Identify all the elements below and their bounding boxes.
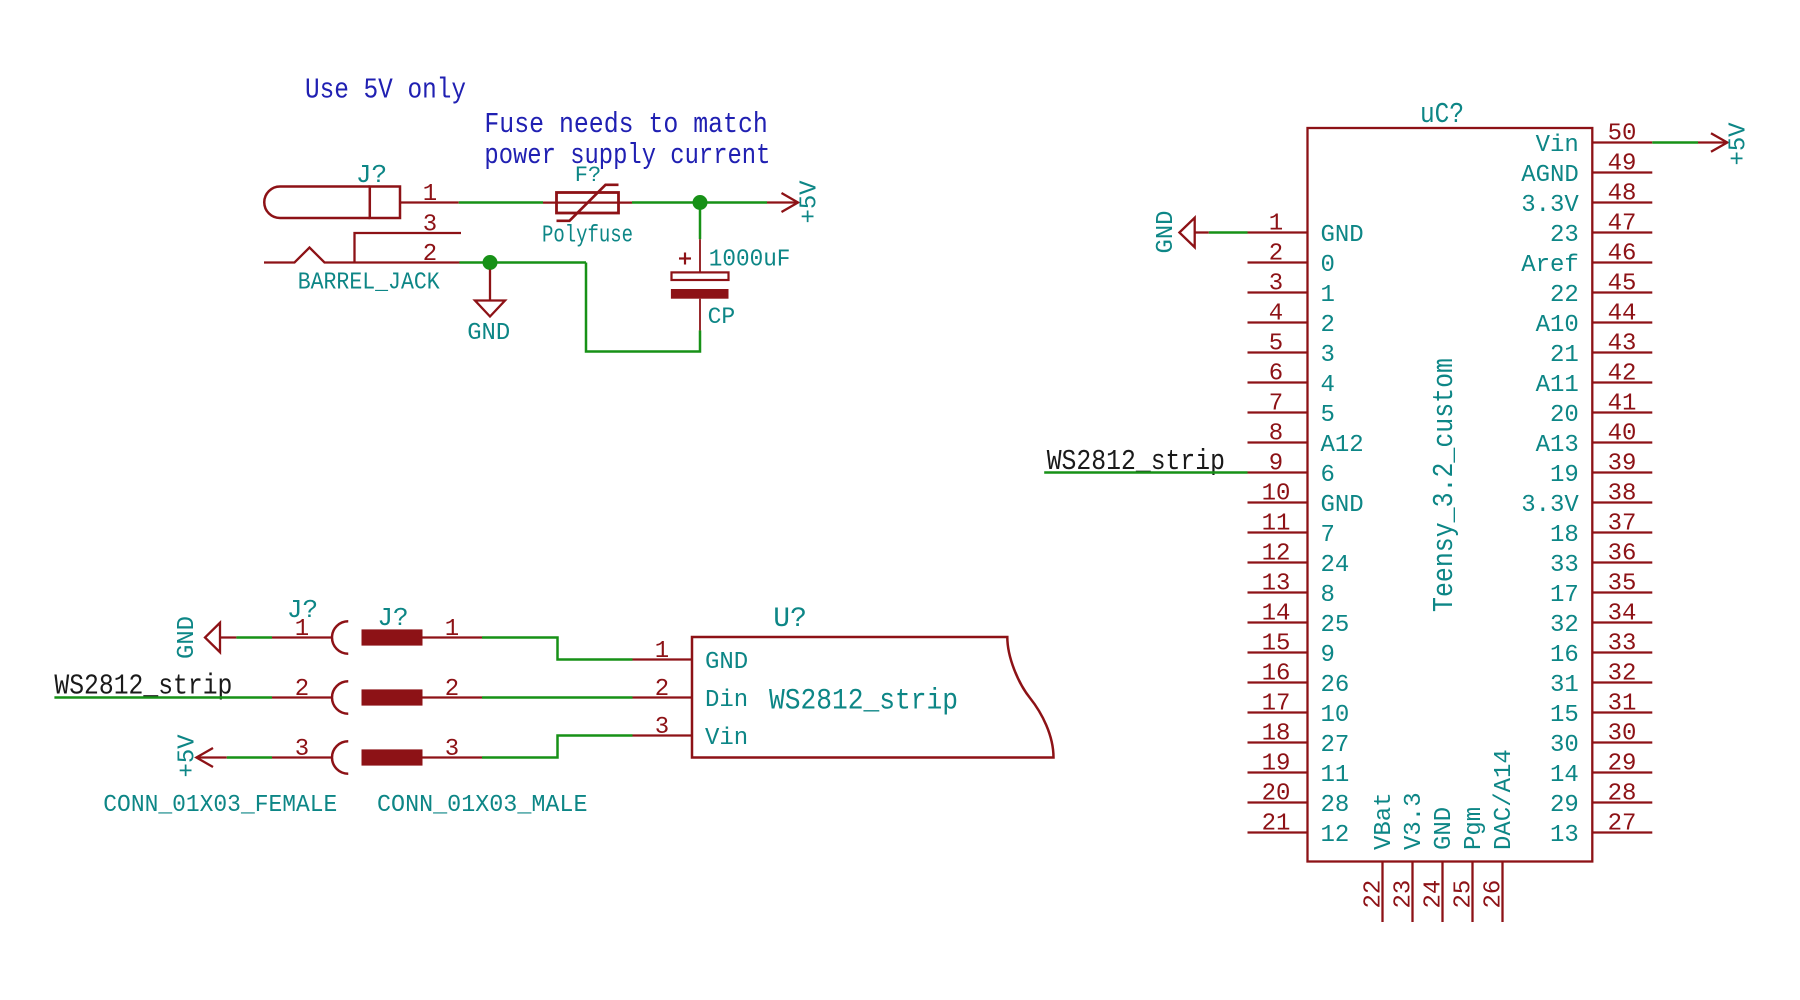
uC pin 15 (9) — [1248, 631, 1335, 670]
uC pin 42 (A11) — [1536, 361, 1653, 400]
svg-text:power supply current: power supply current — [484, 139, 770, 172]
svg-text:22: 22 — [1550, 282, 1579, 309]
wire: down from GND junction — [489, 263, 492, 270]
power symbol +5V (top) — [767, 180, 824, 224]
svg-text:30: 30 — [1550, 732, 1579, 759]
IC U? WS2812_strip — [692, 637, 1054, 758]
svg-text:3: 3 — [655, 714, 669, 741]
uC pin 23 (V3.3) — [1391, 792, 1428, 922]
svg-text:2: 2 — [1269, 241, 1283, 268]
svg-text:A12: A12 — [1321, 432, 1364, 459]
svg-text:13: 13 — [1550, 822, 1579, 849]
uC pin 1 (GND) — [1248, 211, 1364, 250]
svg-text:27: 27 — [1608, 811, 1637, 838]
uC pin 38 (3.3V) — [1521, 481, 1652, 520]
svg-text:9: 9 — [1269, 451, 1283, 478]
svg-text:32: 32 — [1608, 661, 1637, 688]
svg-text:3: 3 — [1321, 342, 1335, 369]
svg-text:17: 17 — [1550, 582, 1579, 609]
svg-text:12: 12 — [1262, 541, 1291, 568]
uC pin 47 (23) — [1550, 211, 1652, 250]
wire: male pin3 to U? pin3 — [482, 736, 633, 758]
svg-text:34: 34 — [1608, 601, 1637, 628]
fuse F? polyfuse — [543, 185, 632, 221]
uC pin 32 (31) — [1550, 661, 1652, 700]
wire: jack pin2 to GND junction — [459, 261, 586, 264]
barrel jack pin 1 — [400, 181, 459, 208]
female pin 2 — [272, 676, 348, 714]
svg-text:Vin: Vin — [1536, 132, 1579, 159]
svg-text:48: 48 — [1608, 181, 1637, 208]
ground symbol GND (female pin 1) — [174, 616, 236, 659]
uC pin 37 (18) — [1550, 511, 1652, 550]
svg-text:GND: GND — [705, 649, 748, 676]
svg-text:18: 18 — [1550, 522, 1579, 549]
male pin 3 — [362, 736, 483, 766]
svg-text:12: 12 — [1321, 822, 1350, 849]
svg-text:30: 30 — [1608, 721, 1637, 748]
svg-text:CP: CP — [708, 304, 736, 330]
wire: male pin2 to U? pin2 — [482, 696, 633, 699]
svg-text:7: 7 — [1321, 522, 1335, 549]
uC pin 30 (30) — [1550, 721, 1652, 760]
svg-text:41: 41 — [1608, 391, 1637, 418]
wire: GND to uC pin 1 — [1209, 231, 1248, 234]
uC pin 40 (A13) — [1536, 421, 1653, 460]
svg-text:3: 3 — [295, 736, 309, 763]
svg-text:+5V: +5V — [175, 734, 202, 778]
svg-text:16: 16 — [1550, 642, 1579, 669]
uC pin 20 (28) — [1248, 781, 1350, 820]
uC pin 36 (33) — [1550, 541, 1652, 580]
U? pin 2 Din — [633, 676, 749, 714]
svg-text:uC?: uC? — [1420, 98, 1464, 131]
wire: WS2812_strip net to uC pin 9 — [1044, 471, 1247, 474]
svg-text:19: 19 — [1550, 462, 1579, 489]
barrel jack pin 3 — [355, 212, 462, 263]
svg-text:22: 22 — [1361, 880, 1388, 909]
svg-text:33: 33 — [1608, 631, 1637, 658]
wire: +5V to female pin 3 — [227, 756, 272, 759]
svg-text:3.3V: 3.3V — [1521, 192, 1579, 219]
uC pin 10 (GND) — [1248, 481, 1364, 520]
svg-text:26: 26 — [1481, 880, 1508, 909]
svg-text:3: 3 — [1269, 271, 1283, 298]
uC pin 27 (13) — [1550, 811, 1652, 850]
svg-text:31: 31 — [1550, 672, 1579, 699]
svg-text:Vin: Vin — [705, 725, 748, 752]
uC pin 4 (2) — [1248, 301, 1335, 340]
uC pin 18 (27) — [1248, 721, 1350, 760]
svg-text:17: 17 — [1262, 691, 1291, 718]
svg-text:15: 15 — [1262, 631, 1291, 658]
svg-text:5: 5 — [1321, 402, 1335, 429]
svg-text:1: 1 — [1269, 211, 1283, 238]
uC pin 17 (10) — [1248, 691, 1350, 730]
uC pin 41 (20) — [1550, 391, 1652, 430]
svg-text:3.3V: 3.3V — [1521, 492, 1579, 519]
male pin 2 — [362, 676, 483, 706]
uC pin 13 (8) — [1248, 571, 1335, 610]
svg-text:49: 49 — [1608, 151, 1637, 178]
svg-text:WS2812_strip: WS2812_strip — [769, 685, 958, 719]
svg-text:GND: GND — [1321, 492, 1364, 519]
svg-text:CONN_01X03_FEMALE: CONN_01X03_FEMALE — [103, 792, 337, 819]
uC pin 46 (Aref) — [1521, 241, 1652, 280]
svg-text:28: 28 — [1608, 781, 1637, 808]
uC pin 31 (15) — [1550, 691, 1652, 730]
svg-text:GND: GND — [1431, 807, 1458, 850]
svg-text:39: 39 — [1608, 451, 1637, 478]
svg-text:31: 31 — [1608, 691, 1637, 718]
svg-text:BARREL_JACK: BARREL_JACK — [298, 270, 441, 297]
svg-text:3: 3 — [445, 736, 459, 763]
svg-text:A13: A13 — [1536, 432, 1579, 459]
svg-text:37: 37 — [1608, 511, 1637, 538]
svg-text:20: 20 — [1262, 781, 1291, 808]
svg-text:GND: GND — [467, 320, 510, 347]
svg-text:4: 4 — [1269, 301, 1283, 328]
svg-text:25: 25 — [1321, 612, 1350, 639]
svg-text:42: 42 — [1608, 361, 1637, 388]
female pin 3 — [272, 736, 348, 774]
uC pin 43 (21) — [1550, 331, 1652, 370]
ground symbol GND (power input) — [467, 270, 510, 348]
uC pin 12 (24) — [1248, 541, 1350, 580]
svg-text:10: 10 — [1321, 702, 1350, 729]
uC pin 39 (19) — [1550, 451, 1652, 490]
svg-text:27: 27 — [1321, 732, 1350, 759]
svg-text:16: 16 — [1262, 661, 1291, 688]
svg-text:32: 32 — [1550, 612, 1579, 639]
svg-text:24: 24 — [1321, 552, 1350, 579]
uC pin 48 (3.3V) — [1521, 181, 1652, 220]
svg-text:3: 3 — [423, 212, 437, 239]
svg-text:4: 4 — [1321, 372, 1335, 399]
wire: jack pin1 to fuse — [459, 201, 543, 204]
wire: junction down to capacitor top — [699, 203, 702, 240]
svg-text:Polyfuse: Polyfuse — [542, 222, 633, 249]
svg-text:A11: A11 — [1536, 372, 1579, 399]
svg-text:1: 1 — [423, 181, 437, 208]
IC uC? Teensy_3.2_custom body — [1308, 128, 1593, 862]
svg-text:24: 24 — [1421, 880, 1448, 909]
female pin 1 — [272, 616, 348, 654]
svg-text:1: 1 — [655, 638, 669, 665]
svg-text:0: 0 — [1321, 252, 1335, 279]
uC pin 14 (25) — [1248, 601, 1350, 640]
svg-text:VBat: VBat — [1371, 792, 1398, 850]
note: Fuse needs to match power supply current — [484, 108, 770, 172]
wire: fuse to +5V with junction — [632, 201, 767, 204]
wire: WS2812_strip net to female pin 2 — [54, 696, 272, 699]
svg-text:AGND: AGND — [1521, 162, 1579, 189]
svg-text:2: 2 — [423, 241, 437, 268]
svg-text:F?: F? — [575, 163, 601, 188]
svg-text:10: 10 — [1262, 481, 1291, 508]
svg-text:36: 36 — [1608, 541, 1637, 568]
svg-text:+5V: +5V — [797, 180, 824, 224]
svg-text:19: 19 — [1262, 751, 1291, 778]
svg-text:2: 2 — [655, 676, 669, 703]
junction at GND node — [483, 255, 498, 270]
uC pin 7 (5) — [1248, 391, 1335, 430]
uC pin 16 (26) — [1248, 661, 1350, 700]
svg-text:20: 20 — [1550, 402, 1579, 429]
svg-text:2: 2 — [1321, 312, 1335, 339]
uC pin 28 (29) — [1550, 781, 1652, 820]
svg-text:Use 5V only: Use 5V only — [305, 74, 466, 107]
svg-text:7: 7 — [1269, 391, 1283, 418]
svg-text:18: 18 — [1262, 721, 1291, 748]
svg-text:29: 29 — [1550, 792, 1579, 819]
svg-text:11: 11 — [1262, 511, 1291, 538]
uC pin 45 (22) — [1550, 271, 1652, 310]
uC pin 29 (14) — [1550, 751, 1652, 790]
capacitor CP 1000uF — [671, 239, 729, 330]
svg-text:Pgm: Pgm — [1461, 807, 1488, 850]
svg-text:45: 45 — [1608, 271, 1637, 298]
svg-text:+5V: +5V — [1726, 122, 1753, 166]
svg-text:V3.3: V3.3 — [1401, 792, 1428, 850]
svg-text:21: 21 — [1262, 811, 1291, 838]
svg-text:40: 40 — [1608, 421, 1637, 448]
wire: GND to female pin 1 — [236, 636, 272, 639]
svg-text:J?: J? — [356, 160, 387, 190]
connector J? barrel jack — [264, 187, 400, 219]
svg-text:8: 8 — [1269, 421, 1283, 448]
svg-text:23: 23 — [1550, 222, 1579, 249]
svg-text:14: 14 — [1262, 601, 1291, 628]
uC pin 33 (16) — [1550, 631, 1652, 670]
wire: male pin1 to U? pin1 — [482, 638, 633, 660]
uC pin 6 (4) — [1248, 361, 1335, 400]
barrel jack pin 2 (sleeve zigzag) — [264, 241, 460, 268]
svg-text:26: 26 — [1321, 672, 1350, 699]
svg-text:28: 28 — [1321, 792, 1350, 819]
svg-text:14: 14 — [1550, 762, 1579, 789]
svg-text:2: 2 — [445, 676, 459, 703]
svg-text:23: 23 — [1391, 880, 1418, 909]
uC pin 5 (3) — [1248, 331, 1335, 370]
svg-text:13: 13 — [1262, 571, 1291, 598]
svg-text:1: 1 — [445, 616, 459, 643]
uC pin 26 (DAC/A14) — [1481, 749, 1518, 922]
uC pin 35 (17) — [1550, 571, 1652, 610]
svg-text:35: 35 — [1608, 571, 1637, 598]
svg-text:CONN_01X03_MALE: CONN_01X03_MALE — [377, 792, 588, 819]
svg-text:15: 15 — [1550, 702, 1579, 729]
svg-text:25: 25 — [1451, 880, 1478, 909]
svg-text:47: 47 — [1608, 211, 1637, 238]
uC pin 50 (Vin) — [1536, 121, 1653, 160]
power symbol +5V (female pin 3) — [175, 734, 227, 778]
svg-text:6: 6 — [1269, 361, 1283, 388]
svg-text:44: 44 — [1608, 301, 1637, 328]
uC pin 21 (12) — [1248, 811, 1350, 850]
svg-text:6: 6 — [1321, 462, 1335, 489]
ground symbol GND (uC pin 1) — [1153, 211, 1209, 254]
svg-text:GND: GND — [174, 616, 201, 659]
svg-text:9: 9 — [1321, 642, 1335, 669]
svg-text:2: 2 — [295, 676, 309, 703]
svg-text:29: 29 — [1608, 751, 1637, 778]
U? pin 1 GND — [633, 638, 749, 676]
uC pin 24 (GND) — [1421, 807, 1458, 922]
svg-text:1: 1 — [1321, 282, 1335, 309]
uC pin 49 (AGND) — [1521, 151, 1652, 190]
svg-text:21: 21 — [1550, 342, 1579, 369]
svg-text:GND: GND — [1153, 211, 1180, 254]
svg-text:Teensy_3.2_custom: Teensy_3.2_custom — [1428, 358, 1461, 612]
uC pin 34 (32) — [1550, 601, 1652, 640]
uC pin 3 (1) — [1248, 271, 1335, 310]
svg-text:43: 43 — [1608, 331, 1637, 358]
male pin 1 — [362, 616, 483, 646]
uC pin 9 (6) — [1248, 451, 1335, 490]
uC pin 19 (11) — [1248, 751, 1350, 790]
junction at +5V node — [693, 195, 708, 210]
uC pin 44 (A10) — [1536, 301, 1653, 340]
wire: bottom return to capacitor — [586, 263, 700, 352]
svg-text:Fuse needs to match: Fuse needs to match — [484, 108, 767, 141]
svg-text:DAC/A14: DAC/A14 — [1491, 749, 1518, 850]
svg-text:A10: A10 — [1536, 312, 1579, 339]
uC pin 22 (VBat) — [1361, 792, 1398, 922]
svg-text:Aref: Aref — [1521, 252, 1579, 279]
svg-text:33: 33 — [1550, 552, 1579, 579]
uC pin 11 (7) — [1248, 511, 1335, 550]
svg-text:Din: Din — [705, 687, 748, 714]
svg-text:50: 50 — [1608, 121, 1637, 148]
svg-text:GND: GND — [1321, 222, 1364, 249]
power symbol +5V (uC pin 50) — [1698, 122, 1753, 166]
wire: uC pin 50 to +5V — [1652, 141, 1698, 144]
svg-text:U?: U? — [773, 604, 807, 635]
svg-text:J?: J? — [377, 603, 408, 633]
svg-text:1000uF: 1000uF — [709, 246, 791, 273]
svg-text:46: 46 — [1608, 241, 1637, 268]
svg-text:8: 8 — [1321, 582, 1335, 609]
uC pin 8 (A12) — [1248, 421, 1364, 460]
uC pin 2 (0) — [1248, 241, 1335, 280]
uC pin 25 (Pgm) — [1451, 807, 1488, 922]
svg-text:11: 11 — [1321, 762, 1350, 789]
svg-text:38: 38 — [1608, 481, 1637, 508]
U? pin 3 Vin — [633, 714, 749, 752]
svg-text:J?: J? — [287, 595, 318, 625]
svg-text:5: 5 — [1269, 331, 1283, 358]
